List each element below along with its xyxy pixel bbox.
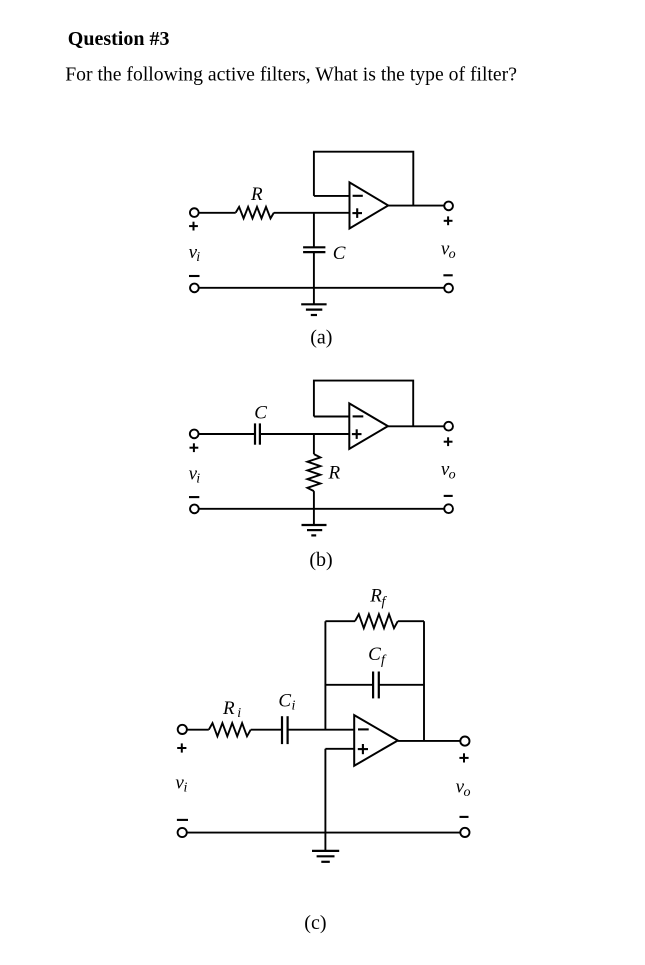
svg-text:f: f [381, 653, 387, 668]
svg-text:(c): (c) [304, 912, 326, 934]
svg-text:i: i [196, 472, 200, 487]
terminal output bottom (c) [460, 828, 469, 837]
wire input top (c) [187, 729, 209, 731]
terminal output top (b) [444, 422, 453, 431]
plus sign input (a) [189, 222, 198, 231]
wire output (a) [388, 205, 444, 207]
terminal input bottom (b) [190, 505, 199, 514]
op-amp U2 (b) [349, 403, 388, 449]
svg-text:C: C [333, 243, 346, 264]
capacitor Ci (c) [282, 716, 288, 744]
plus sign output (b) [444, 437, 453, 446]
svg-text:i: i [292, 699, 296, 714]
terminal input bottom (c) [178, 828, 187, 837]
resistor Ri (c) [209, 723, 251, 736]
wire output (b) [388, 425, 444, 427]
resistor Rf (c) [355, 614, 398, 628]
ground (a) [301, 288, 326, 315]
wire feedback right vertical (c) [423, 621, 425, 741]
terminal output top (a) [444, 202, 453, 211]
wire input top (b) [199, 433, 255, 435]
svg-text:f: f [382, 595, 388, 610]
svg-text:For the following active filte: For the following active filters, What i… [65, 64, 517, 86]
svg-text:R: R [369, 586, 382, 607]
wire Cf row right (c) [379, 684, 424, 686]
svg-text:i: i [184, 781, 188, 796]
svg-text:C: C [254, 403, 267, 424]
ground (c) [312, 833, 339, 862]
wire Cf row left (c) [325, 684, 373, 686]
terminal output bottom (b) [444, 504, 453, 513]
svg-text:Question #3: Question #3 [68, 28, 170, 50]
resistor R (b) [307, 434, 320, 509]
op-amp U3 (c) [354, 715, 398, 766]
terminal input top (a) [190, 208, 199, 217]
wire bottom rail (b) [199, 508, 445, 510]
minus sign input (c) [177, 819, 188, 821]
svg-text:(b): (b) [309, 549, 332, 571]
resistor R (a) [236, 207, 274, 219]
terminal input bottom (a) [190, 284, 199, 293]
svg-text:R: R [250, 184, 263, 205]
wire output (c) [398, 740, 461, 742]
wire Ci to op-amp - input (c) [288, 729, 355, 731]
svg-text:o: o [449, 467, 456, 482]
op-amp U1 (a) [350, 182, 389, 228]
wire node to op-amp + input (b) [260, 433, 349, 435]
minus sign input (b) [189, 496, 199, 498]
terminal output bottom (a) [444, 284, 453, 293]
wire noninverting input (c) [325, 748, 354, 750]
capacitor C (b) [255, 423, 260, 444]
wire bottom rail (a) [199, 287, 445, 289]
wire bottom rail (c) [187, 832, 460, 834]
wire Rf row right (c) [398, 620, 424, 622]
minus sign output (c) [460, 816, 469, 818]
plus sign input (c) [177, 743, 186, 752]
plus sign input (b) [190, 443, 199, 452]
wire inverting input (b) [314, 416, 349, 418]
svg-text:(a): (a) [310, 327, 332, 349]
svg-text:o: o [464, 785, 471, 800]
minus sign output (b) [444, 495, 453, 497]
wire + input down to rail (c) [324, 749, 326, 833]
plus sign output (c) [459, 753, 468, 762]
wire input top (a) [199, 212, 236, 214]
minus sign input (a) [189, 275, 200, 277]
svg-text:R: R [328, 462, 341, 483]
terminal input top (c) [178, 725, 187, 734]
wire Ri to Ci (c) [251, 729, 282, 731]
plus sign output (a) [444, 216, 453, 225]
capacitor Cf (c) [373, 672, 379, 699]
svg-text:i: i [196, 250, 200, 265]
capacitor C (a) [303, 213, 325, 288]
svg-text:i: i [237, 706, 241, 721]
wire feedback loop (b) [314, 381, 413, 427]
svg-text:R: R [222, 698, 235, 719]
minus sign output (a) [443, 274, 452, 276]
wire Rf row left (c) [325, 620, 355, 622]
wire feedback loop (a) [314, 152, 413, 206]
wire feedback left vertical (c) [324, 621, 326, 730]
wire node to op-amp + input (a) [274, 212, 350, 214]
svg-text:C: C [368, 644, 381, 665]
terminal input top (b) [190, 430, 199, 439]
ground (b) [302, 509, 327, 536]
terminal output top (c) [460, 737, 469, 746]
wire inverting input (a) [314, 195, 350, 197]
svg-text:C: C [278, 691, 291, 712]
svg-text:o: o [449, 247, 456, 262]
